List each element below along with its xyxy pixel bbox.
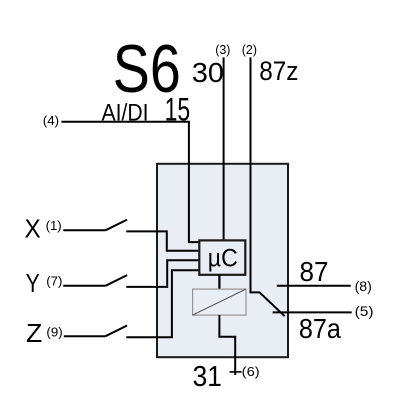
svg-text:(6): (6) xyxy=(242,364,260,379)
wire X fixed contact to uC xyxy=(126,231,199,250)
svg-text:30: 30 xyxy=(192,57,224,88)
switch S3 blade (Z) xyxy=(106,326,128,337)
switch S1 blade (X) xyxy=(106,220,128,231)
wire terminal 87/(8) xyxy=(277,285,351,287)
terminal 31 tick xyxy=(230,371,242,373)
svg-text:Y: Y xyxy=(26,268,40,298)
svg-text:(9): (9) xyxy=(46,324,62,339)
wire terminal 87z/(2) to contact pivot xyxy=(251,57,260,292)
svg-text:X: X xyxy=(25,213,41,243)
svg-text:(1): (1) xyxy=(46,218,62,233)
svg-text:31: 31 xyxy=(193,361,222,393)
wire uC to relay coil xyxy=(218,275,220,290)
wire terminal 15/(4) to uC xyxy=(61,122,199,242)
svg-text:87: 87 xyxy=(300,256,329,287)
svg-text:87z: 87z xyxy=(259,56,298,86)
svg-text:(2): (2) xyxy=(242,43,257,57)
wire terminal 87a/(5) xyxy=(273,311,352,313)
relay coil diagonal xyxy=(193,289,246,315)
svg-text:(4): (4) xyxy=(43,113,59,128)
microcontroller U2 xyxy=(199,240,245,274)
svg-text:(5): (5) xyxy=(355,303,374,319)
switch S2 blade (Y) xyxy=(106,275,128,286)
svg-text:(7): (7) xyxy=(46,273,62,288)
wire relay coil to terminal 31 xyxy=(219,315,235,375)
wire terminal 30/(3) to uC xyxy=(223,57,225,240)
relay module body U1 xyxy=(157,164,288,357)
svg-text:87a: 87a xyxy=(299,313,342,344)
wire Z fixed contact to uC xyxy=(126,270,199,337)
relay coil K1 xyxy=(193,289,246,315)
svg-text:Z: Z xyxy=(26,318,42,348)
changeover contact blade xyxy=(260,292,285,316)
wire X input lead xyxy=(63,229,105,231)
svg-text:(8): (8) xyxy=(355,278,372,294)
wire Y input lead xyxy=(63,285,105,287)
svg-text:µC: µC xyxy=(208,244,238,272)
wire Z input lead xyxy=(64,335,106,337)
svg-text:(3): (3) xyxy=(215,43,230,57)
wire Y fixed contact to uC xyxy=(126,260,199,287)
